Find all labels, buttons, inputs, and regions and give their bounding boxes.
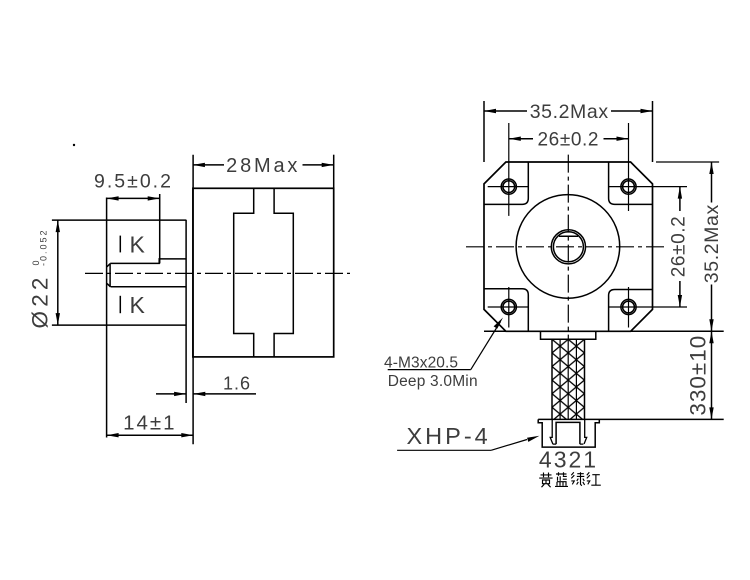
screw hole bottom-right bbox=[609, 287, 687, 328]
svg-text:9.5±0.2: 9.5±0.2 bbox=[94, 171, 173, 193]
char huang (yellow) bbox=[539, 473, 552, 488]
dimension 35.2Max right bbox=[701, 162, 723, 331]
XHP-4 connector body bbox=[538, 419, 599, 447]
char lv (green) bbox=[571, 472, 584, 486]
dimension 330+-10 bbox=[686, 331, 714, 419]
flat mark |K bottom bbox=[120, 292, 145, 318]
cable sheath with crosshatch bbox=[552, 339, 585, 419]
svg-text:K: K bbox=[130, 292, 146, 318]
svg-text:Ø22: Ø22 bbox=[28, 273, 53, 328]
dimension 26+-0.2 right bbox=[668, 187, 689, 307]
front plate line / body front face extension bbox=[192, 155, 194, 445]
svg-text:1.6: 1.6 bbox=[223, 373, 251, 393]
pilot boss front face bbox=[185, 220, 187, 403]
shaft bottom edge bbox=[111, 286, 187, 288]
faceplate bottom edge extension bbox=[484, 330, 724, 332]
pilot boss top edge / phi22 top extension bbox=[52, 219, 186, 221]
corner pocket bottom-right bbox=[609, 290, 653, 332]
pilot boss bottom edge / phi22 bottom extension bbox=[52, 324, 186, 326]
screw hole top-left bbox=[488, 123, 529, 216]
dimension 1.6 bbox=[156, 373, 256, 396]
cable guide ledge bbox=[541, 331, 596, 339]
svg-text:35.2Max: 35.2Max bbox=[530, 101, 609, 123]
corner pocket top-right bbox=[609, 162, 653, 204]
dimension 26+-0.2 top bbox=[509, 130, 629, 151]
char lan (blue) bbox=[555, 472, 568, 486]
dimension 9.5+-0.2 bbox=[94, 171, 173, 438]
front view horizontal centerline bbox=[466, 246, 666, 248]
svg-text:-0.052: -0.052 bbox=[38, 228, 48, 266]
screw hole bottom-left bbox=[488, 287, 529, 328]
connector top line / 330 dim bottom extension bbox=[538, 418, 724, 420]
svg-text:330±10: 330±10 bbox=[686, 335, 711, 416]
stray dot top-left bbox=[73, 144, 75, 146]
svg-text:4-M3x20.5: 4-M3x20.5 bbox=[384, 354, 458, 371]
dimension phi22 0/-0.052 bbox=[28, 220, 60, 328]
screw hole top-right bbox=[609, 123, 687, 211]
corner pocket bottom-left bbox=[484, 289, 528, 332]
svg-text:K: K bbox=[130, 231, 146, 257]
lamination stack profile (left half) bbox=[234, 188, 254, 357]
char hong (red) bbox=[587, 472, 601, 485]
shaft end face with chamfers bbox=[109, 263, 111, 286]
svg-text:28Max: 28Max bbox=[226, 155, 300, 177]
wire colors chinese text (yellow blue green red) bbox=[539, 472, 601, 487]
front view faceplate octagon bbox=[484, 162, 653, 331]
svg-text:26±0.2: 26±0.2 bbox=[538, 130, 600, 151]
shaft circles front view bbox=[551, 230, 585, 264]
svg-text:26±0.2: 26±0.2 bbox=[668, 216, 689, 278]
shaft top edge bbox=[110, 259, 186, 264]
front view vertical centerline bbox=[567, 155, 569, 339]
dimension 28Max bbox=[193, 155, 334, 189]
motor body side view outline bbox=[193, 188, 334, 357]
dimension 14+-1 bbox=[107, 412, 194, 438]
flat mark |K top bbox=[120, 231, 145, 257]
label 4-M3x20.5 Deep 3.0Min with leader bbox=[384, 318, 503, 390]
pilot circle front view bbox=[516, 195, 620, 299]
svg-text:XHP-4: XHP-4 bbox=[407, 423, 491, 449]
lamination stack profile (right half) bbox=[274, 188, 293, 357]
faceplate top edge right extension bbox=[656, 161, 719, 163]
label XHP-4 with leader bbox=[397, 423, 539, 450]
svg-text:4321: 4321 bbox=[539, 446, 598, 472]
svg-text:Deep 3.0Min: Deep 3.0Min bbox=[388, 373, 478, 390]
dimension 35.2Max top bbox=[484, 101, 653, 162]
svg-text:35.2Max: 35.2Max bbox=[701, 204, 723, 283]
corner pocket top-left bbox=[484, 162, 528, 204]
shaft centerline bbox=[85, 272, 350, 274]
svg-text:14±1: 14±1 bbox=[123, 412, 176, 435]
